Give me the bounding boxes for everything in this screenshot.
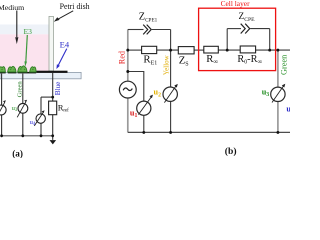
svg-text:u4: u4: [30, 119, 36, 127]
svg-text:Medium: Medium: [0, 3, 24, 12]
svg-text:RE1: RE1: [143, 54, 157, 67]
svg-text:u3: u3: [12, 105, 18, 113]
svg-text:E4: E4: [60, 39, 70, 49]
svg-text:R0-R∞: R0-R∞: [237, 54, 262, 66]
svg-text:Rref: Rref: [58, 102, 69, 113]
svg-text:u3: u3: [262, 88, 270, 99]
svg-text:u4: u4: [286, 105, 290, 116]
svg-text:u2: u2: [154, 88, 162, 99]
svg-text:R∞: R∞: [206, 53, 218, 66]
svg-text:Blue: Blue: [54, 82, 62, 96]
svg-text:(b): (b): [225, 146, 237, 157]
svg-text:ZCPE: ZCPE: [239, 12, 256, 23]
svg-text:Yellow: Yellow: [162, 54, 170, 75]
svg-text:Green: Green: [16, 81, 23, 98]
svg-text:E3: E3: [24, 27, 33, 36]
svg-text:ZS: ZS: [179, 54, 189, 67]
svg-text:(a): (a): [12, 148, 23, 158]
svg-text:Red: Red: [118, 51, 127, 64]
svg-text:Petri dish: Petri dish: [60, 2, 90, 11]
svg-text:ZCPE1: ZCPE1: [139, 11, 158, 23]
svg-text:Green: Green: [280, 54, 289, 75]
svg-text:Cell layer: Cell layer: [221, 0, 250, 8]
